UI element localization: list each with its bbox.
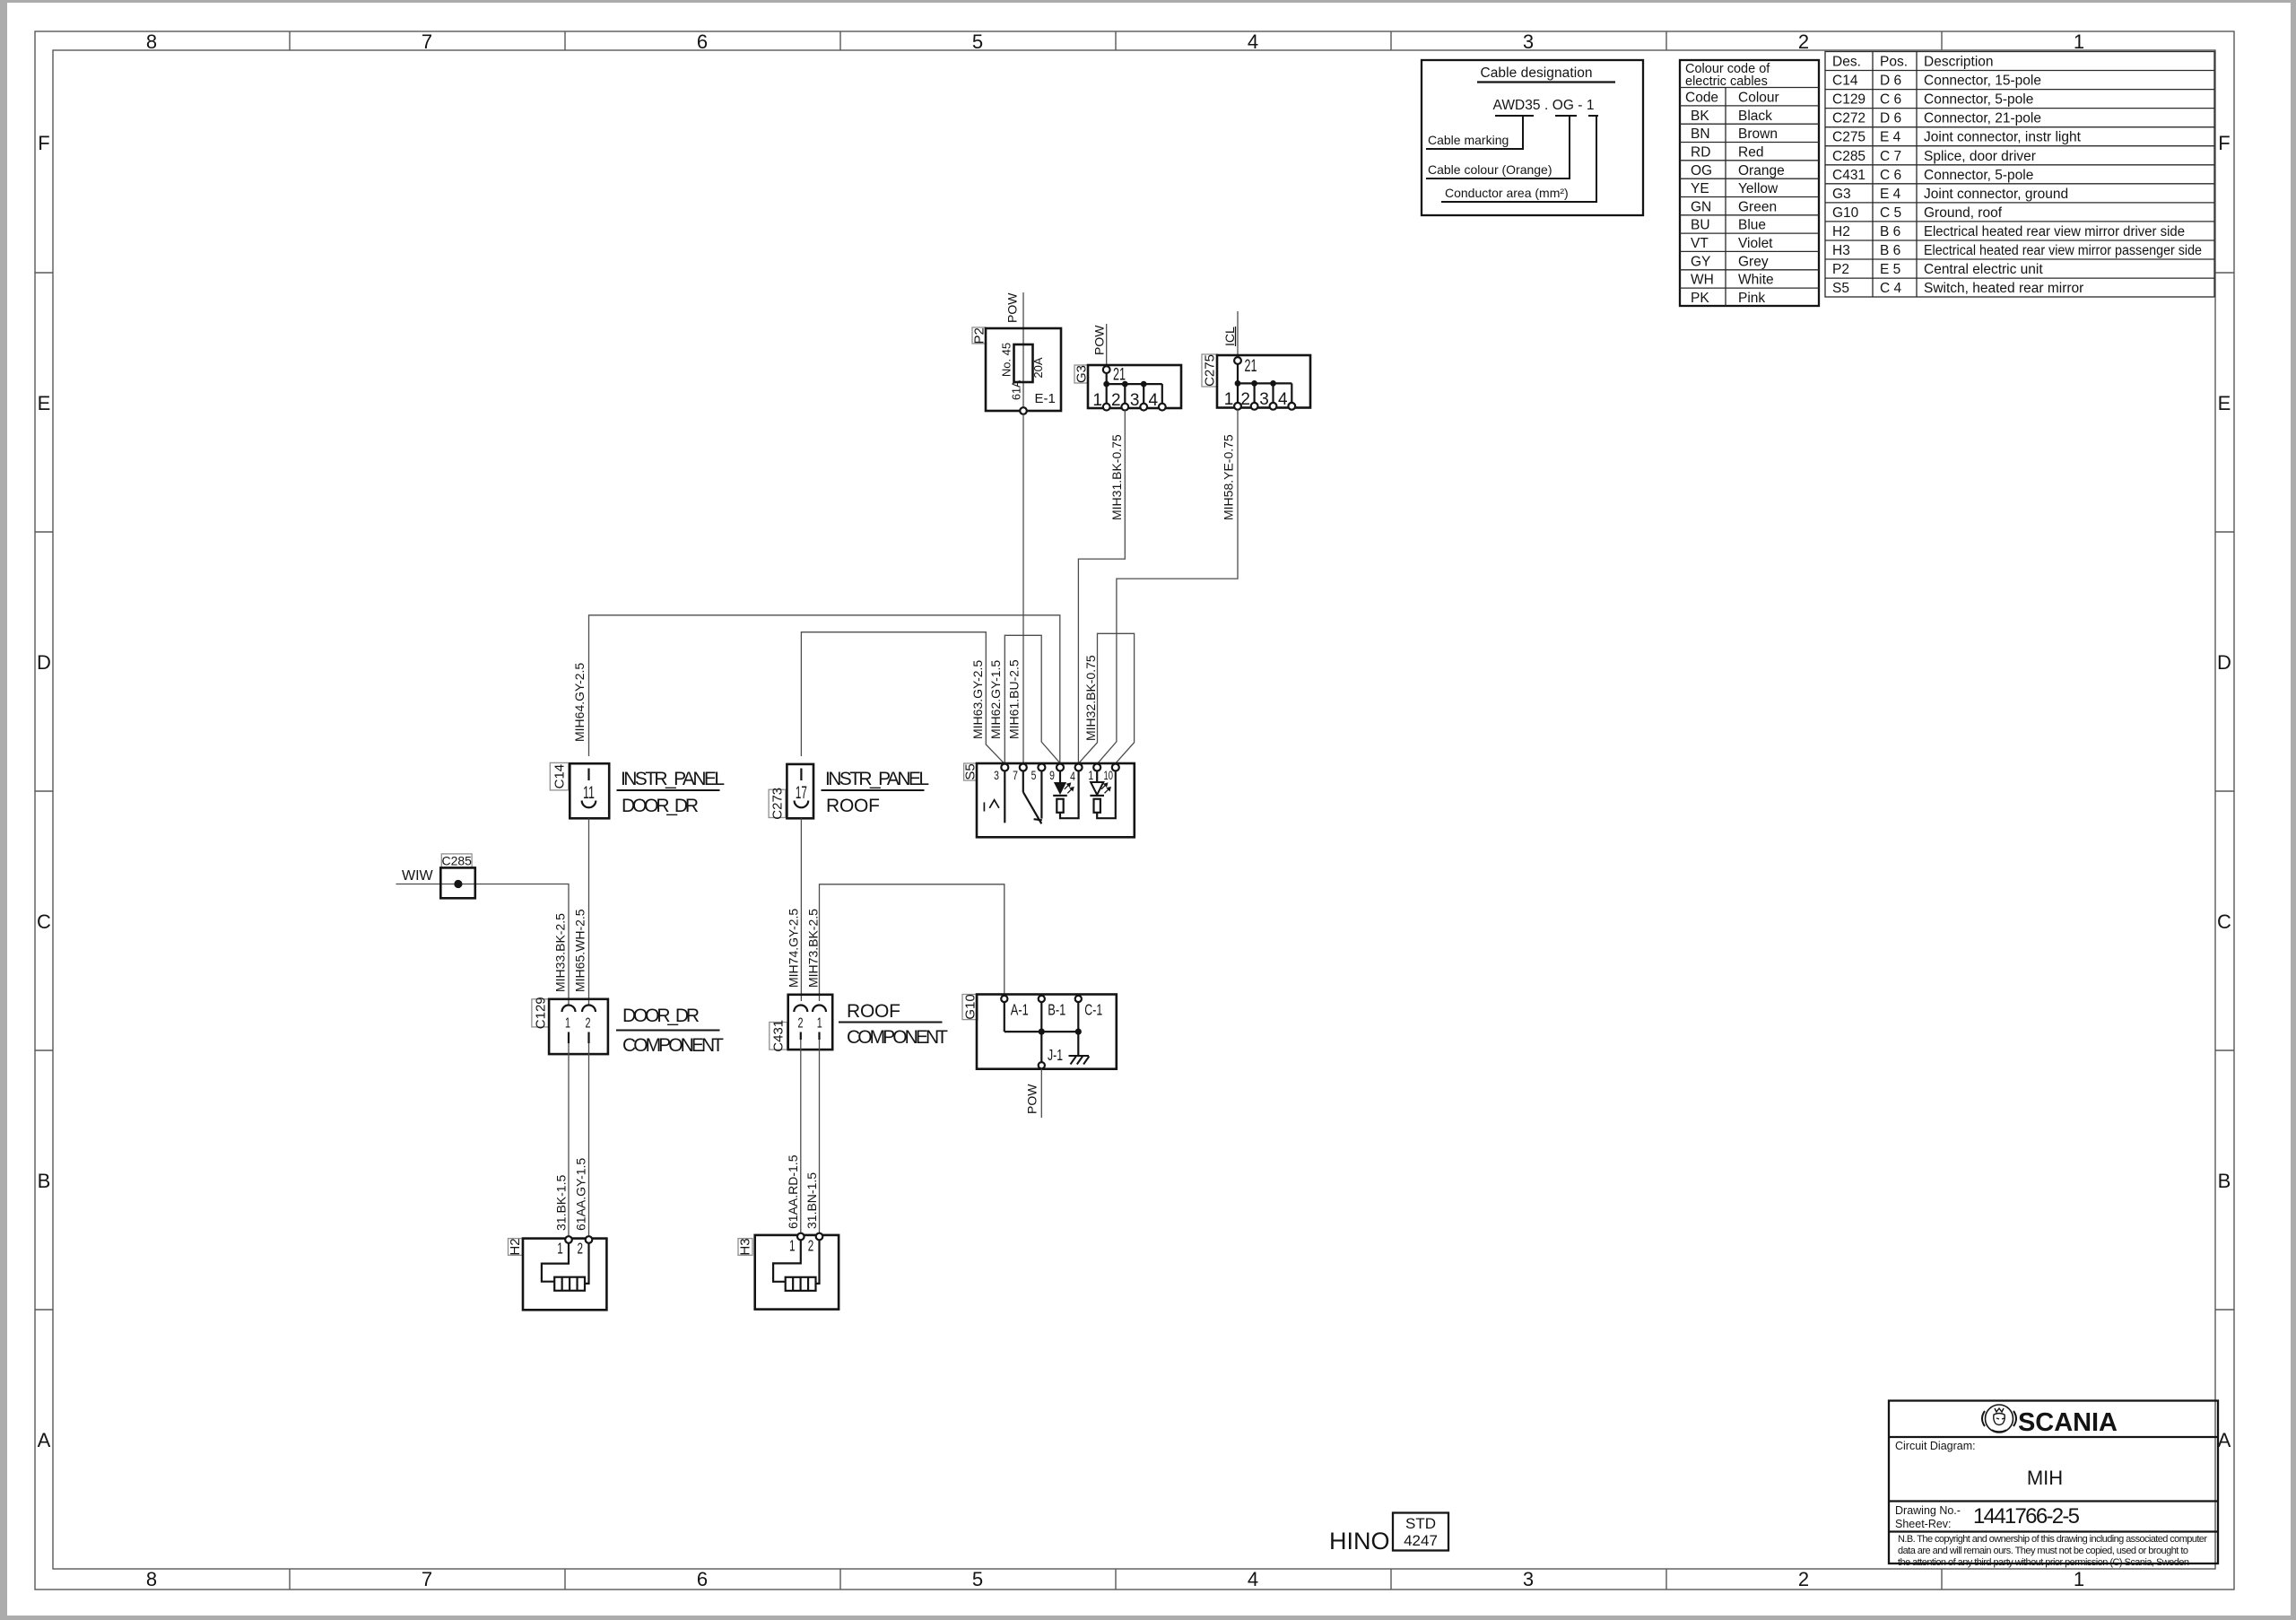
svg-text:Connector, 5-pole: Connector, 5-pole: [1924, 92, 2033, 108]
svg-text:D: D: [37, 651, 51, 674]
S5 pin 10: [1104, 764, 1119, 783]
wire MIH63.GY-2.5 from C273 pin 17 to S5 pin 3: [801, 632, 1004, 764]
wire POW into G3 pin 21: [1106, 324, 1108, 366]
wire MIH61.BU-2.5 from P2 E-1 to S5 pin 7: [1022, 414, 1024, 764]
svg-text:H3: H3: [738, 1238, 753, 1255]
svg-text:MIH64.GY-2.5: MIH64.GY-2.5: [572, 663, 587, 742]
svg-text:2: 2: [798, 1016, 804, 1032]
wire MIH32.BK-0.75 jumper S5 pin 4 to S5 pin 10: [1079, 633, 1135, 762]
cable designation legend box: [1422, 60, 1643, 215]
S5 pin 3: [994, 764, 1008, 783]
svg-text:H2: H2: [508, 1238, 523, 1255]
svg-text:7: 7: [422, 1568, 432, 1590]
svg-text:MIH63.GY-2.5: MIH63.GY-2.5: [970, 660, 985, 739]
svg-text:1: 1: [817, 1016, 822, 1032]
svg-text:Electrical heated rear view mi: Electrical heated rear view mirror drive…: [1924, 224, 2185, 240]
svg-text:Connector, 5-pole: Connector, 5-pole: [1924, 168, 2033, 183]
svg-text:S5: S5: [1832, 281, 1849, 296]
pin E-1 of P2: [1020, 391, 1056, 414]
joint connector G3: [1074, 365, 1181, 411]
svg-text:1: 1: [2074, 30, 2084, 53]
connector C129: [532, 997, 608, 1054]
svg-text:31.BN-1.5: 31.BN-1.5: [804, 1172, 819, 1229]
svg-text:DOOR_DR: DOOR_DR: [622, 796, 699, 816]
svg-text:3: 3: [1130, 391, 1140, 410]
svg-text:E: E: [38, 392, 51, 414]
svg-text:MIH61.BU-2.5: MIH61.BU-2.5: [1007, 659, 1022, 739]
svg-text:E 5: E 5: [1880, 262, 1900, 277]
svg-text:C 6: C 6: [1880, 168, 1901, 183]
ground symbol in G10: [1069, 1056, 1090, 1065]
svg-text:6: 6: [697, 1568, 708, 1590]
svg-text:B-1: B-1: [1048, 1001, 1065, 1019]
H2 pin 1: [557, 1236, 572, 1257]
S5 illumination LED between pin 1 and pin 10: [1090, 771, 1115, 819]
svg-text:B 6: B 6: [1880, 243, 1900, 258]
svg-text:1441766-2-5: 1441766-2-5: [1973, 1504, 2080, 1529]
svg-text:N.B. The copyright and ownersh: N.B. The copyright and ownership of this…: [1898, 1534, 2207, 1545]
svg-text:C275: C275: [1202, 354, 1217, 387]
svg-text:Blue: Blue: [1738, 218, 1766, 233]
svg-text:E: E: [2218, 392, 2231, 414]
svg-text:electric cables: electric cables: [1685, 74, 1768, 89]
joint connector C275: [1202, 354, 1310, 410]
H3 pin 2: [808, 1233, 823, 1255]
ruler row ticks left: [35, 273, 53, 1310]
svg-text:D 6: D 6: [1880, 111, 1901, 126]
svg-text:C129: C129: [533, 997, 548, 1029]
svg-text:1: 1: [1224, 390, 1234, 409]
svg-text:9: 9: [1049, 769, 1055, 782]
H3 pin 1: [789, 1233, 804, 1255]
svg-text:Cable designation: Cable designation: [1481, 65, 1593, 81]
wire MIH58.YE-0.75 from C275 pin 1 to S5 pin 1: [1098, 410, 1238, 763]
G10 pin J-1: [1039, 1032, 1063, 1068]
svg-text:2: 2: [578, 1240, 584, 1258]
svg-text:F: F: [38, 132, 49, 154]
H2 heating element: [542, 1243, 589, 1291]
svg-text:PK: PK: [1691, 291, 1709, 306]
svg-text:2: 2: [1111, 391, 1121, 410]
svg-text:5: 5: [1031, 769, 1037, 782]
svg-text:MIH31.BK-0.75: MIH31.BK-0.75: [1109, 434, 1124, 520]
wire 31.BN-1.5 from C431 pin 1 to H3 pin 2: [819, 1040, 821, 1233]
svg-text:C273: C273: [770, 788, 785, 820]
ruler column numbers top: [146, 30, 2084, 53]
wire 61AA.GY-1.5 from C129 pin 2 to H2 pin 2: [588, 1043, 590, 1237]
connector C14: [550, 762, 609, 818]
svg-text:RD: RD: [1691, 144, 1710, 160]
svg-text:SCANIA: SCANIA: [2018, 1408, 2118, 1437]
wire MIH65.WH-2.5 from C14 pin 11 to C129 pin 2: [588, 818, 590, 1006]
svg-text:H2: H2: [1832, 224, 1850, 240]
svg-text:17: 17: [796, 784, 807, 803]
ruler row letters left: [37, 132, 51, 1451]
svg-text:4: 4: [1278, 390, 1288, 409]
S5 indicator LED between pin 9 and pin 4: [1053, 771, 1078, 819]
wire MIH64.GY-2.5 from C14 pin 11 to S5 pin 9: [589, 615, 1060, 764]
svg-text:COMPONENT: COMPONENT: [622, 1035, 724, 1056]
svg-text:C 6: C 6: [1880, 92, 1901, 108]
svg-text:A-1: A-1: [1011, 1001, 1029, 1019]
H3 heating element: [773, 1241, 819, 1291]
svg-text:Drawing No.-: Drawing No.-: [1895, 1504, 1961, 1517]
svg-text:VT: VT: [1691, 236, 1709, 251]
S5 pin 9: [1049, 764, 1064, 783]
svg-text:COMPONENT: COMPONENT: [847, 1027, 948, 1048]
svg-text:4: 4: [1149, 391, 1159, 410]
svg-text:C-1: C-1: [1084, 1001, 1102, 1019]
switch S5 heated rear mirror: [963, 763, 1135, 837]
svg-text:G3: G3: [1832, 187, 1851, 202]
fuse No.45 20A in P2: [1000, 343, 1046, 382]
svg-text:J-1: J-1: [1048, 1046, 1063, 1064]
ruler column numbers bottom: [146, 1568, 2084, 1590]
ruler row ticks right: [2215, 273, 2234, 1310]
svg-text:20A: 20A: [1031, 357, 1045, 378]
C431 harness label ROOF / COMPONENT: [839, 1001, 948, 1048]
svg-text:White: White: [1738, 273, 1774, 288]
svg-text:MIH58.YE-0.75: MIH58.YE-0.75: [1221, 434, 1235, 520]
wire MIH73.BK-2.5 from C431 pin 1 to G10 pin A-1: [820, 884, 1004, 1001]
C14 harness label INSTR_PANEL / DOOR_DR: [617, 769, 726, 816]
svg-text:GY: GY: [1691, 254, 1710, 269]
svg-text:ICL: ICL: [1222, 327, 1237, 346]
connector C273: [769, 764, 813, 820]
svg-text:1: 1: [1088, 769, 1093, 782]
svg-text:C: C: [2217, 910, 2231, 933]
connector C431: [770, 995, 832, 1052]
svg-text:8: 8: [146, 30, 157, 53]
svg-text:Description: Description: [1924, 55, 1994, 70]
svg-text:E 4: E 4: [1880, 130, 1901, 145]
svg-text:4: 4: [1248, 30, 1258, 53]
wire POW into P2: [1022, 292, 1024, 344]
svg-text:data are and will remain ours.: data are and will remain ours. They must…: [1898, 1546, 2188, 1556]
svg-text:Switch, heated rear mirror: Switch, heated rear mirror: [1924, 281, 2083, 296]
G10 pin B-1: [1039, 996, 1066, 1019]
wire 31.BK-1.5 from C129 pin 1 to H2 pin 1: [568, 1043, 570, 1237]
svg-text:4: 4: [1248, 1568, 1258, 1590]
svg-text:Conductor area (mm²): Conductor area (mm²): [1445, 186, 1569, 200]
svg-text:2: 2: [808, 1237, 814, 1255]
H2 pin 2: [578, 1236, 593, 1257]
svg-text:ROOF: ROOF: [826, 796, 880, 816]
svg-text:C431: C431: [1832, 168, 1865, 183]
svg-text:POW: POW: [1025, 1084, 1039, 1114]
svg-text:F: F: [2218, 132, 2230, 154]
svg-text:C285: C285: [441, 854, 472, 868]
S5 pin 4: [1070, 764, 1083, 784]
svg-text:Red: Red: [1738, 144, 1763, 160]
copyright note: [1898, 1534, 2207, 1568]
svg-text:Connector, 21-pole: Connector, 21-pole: [1924, 111, 2041, 126]
svg-text:P2: P2: [1832, 262, 1849, 277]
svg-text:Brown: Brown: [1738, 126, 1778, 142]
svg-text:Circuit Diagram:: Circuit Diagram:: [1895, 1440, 1976, 1452]
S5 fixed contact line to pin 5: [1040, 771, 1042, 819]
wire POW from G10 J-1: [1040, 1069, 1042, 1119]
svg-text:WH: WH: [1691, 273, 1714, 288]
svg-text:1: 1: [1092, 391, 1102, 410]
svg-text:No. 45: No. 45: [1000, 343, 1013, 377]
wire ICL into C275 pin 21: [1237, 311, 1239, 357]
svg-text:4247: 4247: [1404, 1532, 1438, 1549]
svg-text:INSTR_PANEL: INSTR_PANEL: [825, 769, 929, 789]
svg-text:BN: BN: [1691, 126, 1710, 142]
svg-text:Violet: Violet: [1738, 236, 1773, 251]
svg-text:5: 5: [972, 30, 983, 53]
ruler column ticks bottom: [290, 1569, 1942, 1590]
svg-text:2: 2: [586, 1016, 591, 1032]
svg-text:31.BK-1.5: 31.BK-1.5: [553, 1175, 568, 1231]
svg-text:MIH62.GY-1.5: MIH62.GY-1.5: [988, 660, 1003, 739]
svg-text:DOOR_DR: DOOR_DR: [622, 1006, 700, 1026]
central electric unit P2: [971, 327, 1061, 411]
svg-text:AWD35 . OG - 1: AWD35 . OG - 1: [1493, 98, 1595, 113]
svg-text:C 5: C 5: [1880, 205, 1901, 221]
ground G10 roof: [962, 994, 1117, 1068]
svg-text:B: B: [2218, 1170, 2231, 1192]
svg-text:G10: G10: [1832, 205, 1859, 221]
svg-text:C285: C285: [1832, 149, 1865, 164]
svg-text:Joint connector, ground: Joint connector, ground: [1924, 187, 2068, 202]
svg-text:OG: OG: [1691, 163, 1712, 179]
svg-text:Green: Green: [1738, 199, 1777, 214]
S5 switch common contact line from pin 3: [1004, 771, 1005, 823]
svg-text:GN: GN: [1691, 199, 1711, 214]
wire MIH74.GY-2.5 from C273 pin 17 to C431 pin 2: [800, 818, 802, 1001]
wire MIH31.BK-0.75 from G3 pin 2 to S5 pin 4: [1078, 411, 1125, 764]
svg-text:Cable marking: Cable marking: [1428, 133, 1509, 147]
svg-text:Cable colour (Orange): Cable colour (Orange): [1428, 162, 1552, 177]
svg-text:1: 1: [557, 1240, 563, 1258]
G10 pin A-1: [1001, 996, 1029, 1019]
svg-text:C129: C129: [1832, 92, 1865, 108]
svg-text:Joint connector, instr light: Joint connector, instr light: [1924, 130, 2082, 145]
svg-text:POW: POW: [1091, 325, 1106, 355]
svg-text:61AA.GY-1.5: 61AA.GY-1.5: [574, 1158, 588, 1231]
G10 pin C-1: [1075, 996, 1103, 1019]
ruler row letters right: [2217, 132, 2231, 1451]
svg-text:1: 1: [789, 1237, 796, 1255]
svg-text:HINO: HINO: [1329, 1528, 1390, 1555]
C273 harness label INSTR_PANEL / ROOF: [822, 769, 930, 816]
svg-text:POW: POW: [1005, 292, 1020, 323]
svg-text:Colour: Colour: [1738, 91, 1779, 106]
svg-text:1: 1: [565, 1016, 570, 1032]
svg-text:C14: C14: [552, 764, 567, 789]
svg-text:MIH74.GY-2.5: MIH74.GY-2.5: [787, 909, 801, 988]
svg-text:Sheet-Rev:: Sheet-Rev:: [1895, 1518, 1952, 1530]
svg-text:6: 6: [697, 30, 708, 53]
svg-text:E-1: E-1: [1035, 391, 1056, 406]
svg-text:10: 10: [1104, 769, 1114, 782]
svg-text:H3: H3: [1832, 243, 1850, 258]
svg-text:3: 3: [1523, 1568, 1534, 1590]
svg-text:INSTR_PANEL: INSTR_PANEL: [621, 769, 725, 789]
svg-text:STD: STD: [1405, 1515, 1436, 1532]
svg-text:WIW: WIW: [402, 868, 434, 884]
svg-text:YE: YE: [1691, 181, 1709, 196]
svg-text:2: 2: [1798, 1568, 1809, 1590]
component designation table: [1825, 52, 2214, 298]
svg-text:4: 4: [1070, 770, 1075, 783]
wire through P2 to E-1: [1022, 344, 1024, 409]
svg-text:C431: C431: [771, 1020, 787, 1052]
G10 internal ground branch: [1077, 1032, 1079, 1056]
svg-text:BK: BK: [1691, 109, 1709, 124]
cable designation callout lines: [1426, 116, 1598, 202]
S5 pin 1: [1088, 764, 1100, 783]
S5 pin 5: [1031, 764, 1046, 783]
C129 harness label DOOR_DR / COMPONENT: [616, 1006, 724, 1056]
svg-text:Grey: Grey: [1738, 254, 1769, 269]
svg-text:11: 11: [583, 784, 595, 803]
svg-text:Code: Code: [1685, 91, 1718, 106]
svg-text:D 6: D 6: [1880, 74, 1901, 89]
svg-text:C 7: C 7: [1880, 149, 1901, 164]
S5 switch position marks: [984, 800, 999, 812]
S5 pin 7: [1013, 764, 1027, 783]
svg-text:the attention of any third par: the attention of any third party without…: [1898, 1557, 2189, 1568]
svg-text:Des.: Des.: [1832, 55, 1861, 70]
svg-text:D: D: [2217, 651, 2231, 674]
heated mirror H3 passenger side: [738, 1235, 839, 1310]
ruler column ticks top: [290, 31, 1942, 50]
svg-text:B 6: B 6: [1880, 224, 1900, 240]
wire WIW through C285 to C129 pin 1: [396, 884, 570, 1006]
svg-text:MIH32.BK-0.75: MIH32.BK-0.75: [1083, 655, 1098, 741]
svg-text:C14: C14: [1832, 74, 1858, 89]
title block frame: [1889, 1401, 2218, 1564]
svg-text:3: 3: [1523, 30, 1534, 53]
svg-text:61A: 61A: [1011, 379, 1023, 400]
svg-text:Black: Black: [1738, 109, 1772, 124]
svg-text:MIH: MIH: [2027, 1467, 2063, 1489]
svg-text:2: 2: [1798, 30, 1809, 53]
svg-text:A: A: [38, 1429, 51, 1451]
colour code table: [1680, 60, 1819, 306]
svg-text:B: B: [38, 1170, 51, 1192]
svg-text:Splice, door driver: Splice, door driver: [1924, 149, 2036, 164]
svg-text:Orange: Orange: [1738, 163, 1785, 179]
svg-text:8: 8: [146, 1568, 157, 1590]
Scania griffin emblem: [1982, 1405, 2016, 1433]
heated mirror H2 driver side: [508, 1238, 606, 1310]
svg-text:A: A: [2218, 1429, 2231, 1451]
svg-text:Electrical heated rear view mi: Electrical heated rear view mirror passe…: [1924, 243, 2202, 258]
svg-text:1: 1: [2074, 1568, 2084, 1590]
svg-text:3: 3: [994, 769, 999, 782]
svg-text:Pink: Pink: [1738, 291, 1765, 306]
svg-text:BU: BU: [1691, 218, 1710, 233]
svg-text:C275: C275: [1832, 130, 1865, 145]
svg-text:C272: C272: [1832, 111, 1865, 126]
svg-text:Pos.: Pos.: [1880, 55, 1908, 70]
G10 junction dots: [1039, 1029, 1045, 1035]
wire 61AA.RD-1.5 from C431 pin 2 to H3 pin 1: [800, 1040, 802, 1233]
splice C285: [440, 854, 475, 899]
svg-text:MIH73.BK-2.5: MIH73.BK-2.5: [806, 909, 821, 988]
svg-text:5: 5: [972, 1568, 983, 1590]
svg-text:E 4: E 4: [1880, 187, 1901, 202]
svg-text:C: C: [37, 910, 51, 933]
svg-text:3: 3: [1259, 390, 1269, 409]
svg-text:Central electric unit: Central electric unit: [1924, 262, 2043, 277]
svg-text:21: 21: [1245, 357, 1257, 376]
svg-text:7: 7: [422, 30, 432, 53]
svg-text:C 4: C 4: [1880, 281, 1902, 296]
svg-text:MIH33.BK-2.5: MIH33.BK-2.5: [553, 913, 568, 992]
net label ICL at C275 (underlined): [1222, 327, 1237, 346]
svg-text:Ground, roof: Ground, roof: [1924, 205, 2003, 221]
wire MIH62.GY-1.5 jumper S5 pin 3 to S5 pin 9: [1004, 635, 1059, 763]
STD 4247 box: [1393, 1513, 1448, 1551]
svg-text:MIH65.WH-2.5: MIH65.WH-2.5: [573, 909, 587, 992]
svg-text:Yellow: Yellow: [1738, 181, 1779, 196]
svg-text:Connector, 15-pole: Connector, 15-pole: [1924, 74, 2041, 89]
svg-text:7: 7: [1013, 769, 1018, 782]
svg-text:61AA.RD-1.5: 61AA.RD-1.5: [786, 1154, 800, 1229]
svg-text:ROOF: ROOF: [847, 1001, 900, 1022]
G10 internal bus: [1004, 1002, 1079, 1032]
S5 switch blade from pin 7: [1023, 771, 1042, 824]
